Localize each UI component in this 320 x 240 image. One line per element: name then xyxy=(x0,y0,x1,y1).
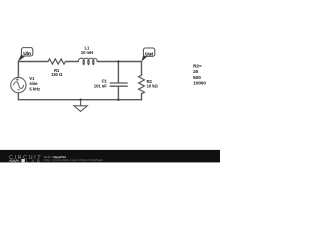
wire bottom xyxy=(18,99,141,101)
svg-text:101 nF: 101 nF xyxy=(94,83,107,88)
flag Uut box xyxy=(143,48,154,56)
svg-text:10 mH: 10 mH xyxy=(81,50,93,55)
svg-text:500: 500 xyxy=(193,75,201,80)
wire top from corner to R1 xyxy=(18,61,48,63)
inductor L1 xyxy=(78,58,97,65)
wire L1 to node A xyxy=(97,61,118,63)
V1 sine mark xyxy=(14,82,24,89)
svg-text:R2=: R2= xyxy=(193,63,202,68)
wire R1 to L1 xyxy=(66,61,79,63)
svg-text:10000: 10000 xyxy=(193,81,206,86)
annotation R2 sweep values xyxy=(193,63,206,85)
V1 plus mark xyxy=(16,78,19,81)
svg-text:http://circuitlab.com/c/4km722: http://circuitlab.com/c/4km722q7kab xyxy=(44,158,102,162)
wire V1 top lead xyxy=(17,62,19,78)
footer bar xyxy=(0,150,220,163)
ground xyxy=(74,100,87,112)
wire C1 bottom lead xyxy=(117,86,119,99)
capacitor C1 plates xyxy=(110,83,127,86)
wire R2 bottom lead xyxy=(141,94,143,100)
V1 minus mark xyxy=(17,89,20,91)
svg-text:130 Ω: 130 Ω xyxy=(51,72,63,77)
junction ground dot xyxy=(79,99,81,101)
resistor R1 xyxy=(48,59,66,64)
svg-text:Uut: Uut xyxy=(145,51,153,57)
resistor R2 xyxy=(139,75,145,94)
voltage source V1 circle xyxy=(11,77,26,92)
svg-text:5 kHz: 5 kHz xyxy=(29,86,40,91)
svg-text:Uin: Uin xyxy=(23,51,31,57)
svg-text:25: 25 xyxy=(193,69,199,74)
svg-text:LAB: LAB xyxy=(26,158,42,163)
flag Uut pointer xyxy=(142,54,148,62)
flag Uin pointer xyxy=(18,54,25,62)
flag Uin box xyxy=(21,48,32,56)
wire R2 top lead xyxy=(141,62,143,76)
junction C1 bottom dot xyxy=(117,99,119,101)
svg-text:10 kΩ: 10 kΩ xyxy=(147,83,159,88)
junction node A dot xyxy=(117,60,119,62)
footer logo zigzag xyxy=(9,160,19,163)
wire V1 bottom lead xyxy=(17,93,19,100)
wire C1 top lead xyxy=(117,62,119,83)
wire node A to Uut corner xyxy=(118,61,141,63)
footer logo LAB box xyxy=(21,159,24,162)
